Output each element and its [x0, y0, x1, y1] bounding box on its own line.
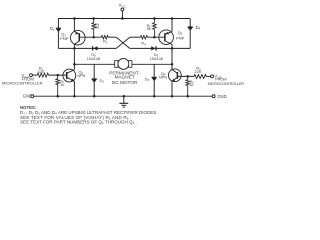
- wire right column: [171, 48, 173, 64]
- svg-text:SEE TEXT FOR PART NUMBERS OF Q: SEE TEXT FOR PART NUMBERS OF Q1 THROUGH …: [20, 120, 137, 126]
- diode D1: [56, 28, 61, 29]
- transistor Q1: [73, 19, 75, 32]
- svg-text:FROM: FROM: [215, 76, 226, 81]
- wire crossover diagonal up: [116, 37, 130, 48]
- Vcc terminal: [121, 8, 124, 11]
- diode D5: [92, 46, 93, 50]
- svg-text:DC MOTOR: DC MOTOR: [112, 80, 138, 85]
- resistor R7: [57, 75, 59, 79]
- wire VinA to R1: [33, 74, 38, 76]
- svg-text:MAGNET: MAGNET: [115, 75, 135, 80]
- wire right outer branch: [189, 19, 191, 49]
- transistor Q3: [63, 69, 76, 82]
- wire left column: [73, 48, 75, 64]
- svg-text:1k: 1k: [190, 83, 194, 87]
- resistor R5: [93, 19, 95, 23]
- svg-text:MICROCONTROLLER: MICROCONTROLLER: [208, 82, 245, 86]
- ground GND right terminal: [212, 95, 215, 98]
- resistor R4: [140, 35, 147, 39]
- svg-text:1N4148: 1N4148: [87, 57, 100, 61]
- node bottom rail junctions: [56, 95, 59, 98]
- node left base junction: [92, 36, 95, 39]
- svg-text:D4: D4: [196, 25, 201, 31]
- diode D4: [188, 26, 193, 27]
- ground earth symbol: [123, 96, 125, 103]
- svg-text:1k: 1k: [60, 83, 64, 87]
- node right base junction: [153, 36, 156, 39]
- diode D3: [153, 64, 155, 96]
- resistor R2: [194, 74, 206, 78]
- svg-text:PNP: PNP: [60, 36, 69, 41]
- svg-text:5k: 5k: [147, 27, 151, 31]
- wire motor left: [74, 63, 114, 65]
- svg-text:PNP: PNP: [176, 36, 185, 41]
- svg-text:1N4148: 1N4148: [150, 57, 163, 61]
- svg-text:D2: D2: [100, 78, 105, 84]
- svg-text:220: 220: [194, 69, 201, 74]
- wire crossover diagonal down: [116, 37, 130, 48]
- svg-text:NPN: NPN: [159, 76, 167, 80]
- wire R2 to VinB: [206, 75, 210, 77]
- svg-text:220: 220: [37, 69, 44, 74]
- wire D6 level right: [130, 47, 172, 49]
- wire bottom rail: [34, 95, 213, 97]
- diode D6: [151, 46, 155, 50]
- resistor R6: [153, 19, 155, 23]
- wire motor right: [132, 63, 172, 65]
- svg-text:VCC: VCC: [119, 3, 127, 9]
- wire top rail: [58, 18, 190, 20]
- wire Vcc stub: [121, 11, 123, 19]
- wire R1 to base node: [49, 74, 67, 76]
- svg-text:MICROCONTROLLER: MICROCONTROLLER: [2, 81, 43, 86]
- motor M1: [115, 61, 118, 68]
- wire R4 to R6 node: [148, 36, 166, 38]
- terminal VinB: [211, 75, 214, 78]
- wire R3 to diagonal: [108, 36, 116, 38]
- diode D2: [93, 64, 95, 96]
- node top rail junctions: [73, 17, 76, 20]
- svg-text:NPN: NPN: [77, 74, 85, 78]
- wire base node to R2: [177, 75, 194, 77]
- svg-text:D1: D1: [50, 26, 55, 32]
- resistor R8: [187, 76, 189, 79]
- wire left outer branch: [57, 19, 59, 49]
- resistor R1: [37, 73, 48, 77]
- transistor Q2: [171, 19, 173, 32]
- svg-text:GND: GND: [217, 94, 227, 99]
- wire D5 level left: [74, 47, 116, 49]
- svg-text:R3: R3: [103, 39, 108, 45]
- transistor Q4: [168, 69, 181, 82]
- wire base level right diag side: [130, 36, 141, 38]
- svg-text:R4: R4: [141, 41, 146, 47]
- wire base level left: [79, 36, 101, 38]
- resistor R3: [101, 35, 108, 39]
- svg-text:D3: D3: [145, 76, 150, 82]
- svg-text:5k: 5k: [95, 25, 99, 29]
